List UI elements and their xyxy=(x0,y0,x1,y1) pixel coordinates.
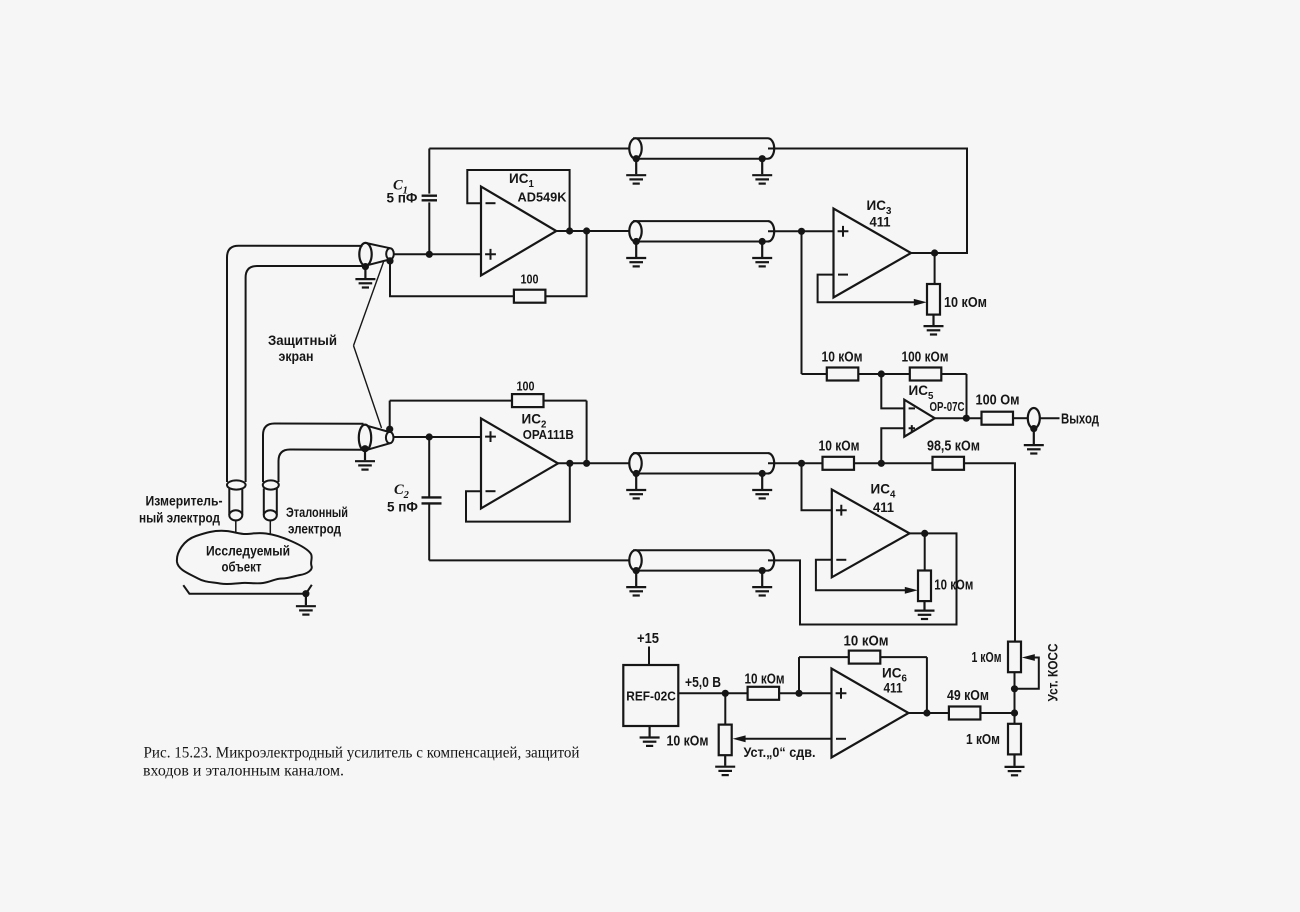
wire reference row from cable C through 10k and 98.5k to CMRR pot xyxy=(768,463,1015,641)
ground 1 kOhm xyxy=(1005,754,1025,775)
electrode 1 (measuring electrode) xyxy=(227,480,246,533)
wire pot bottom through node to R 1k xyxy=(1014,672,1016,723)
node IC3 + input tap xyxy=(798,228,805,235)
arrow offset pot wiper xyxy=(733,735,746,742)
node IC1 output / feedback xyxy=(566,227,573,234)
node IC2 output / guard tap xyxy=(583,460,590,467)
node IC4 output xyxy=(921,530,928,537)
junction shielded cable A (top bootstrap) shield left xyxy=(633,155,640,162)
callout line to plug A guard xyxy=(354,262,384,346)
svg-text:Уст. КОСС: Уст. КОСС xyxy=(1045,644,1061,702)
ground offset pot xyxy=(715,755,735,775)
wire IC6 output row via R 49k xyxy=(909,712,1015,714)
node IC3 output xyxy=(931,249,938,256)
junction output jack shield xyxy=(1030,425,1037,432)
svg-text:Выход: Выход xyxy=(1061,412,1099,428)
junction shielded cable C (IC2 output) shield right xyxy=(759,470,766,477)
potentiometer R gain 10 kOhm (IC4) xyxy=(918,571,931,602)
svg-text:REF-02C: REF-02C xyxy=(626,689,676,704)
junction shielded cable D (lower bootstrap) shield right xyxy=(759,567,766,574)
wire cable 2 shield outer line xyxy=(263,424,364,483)
node IC2 + input / C2 junction xyxy=(426,433,433,440)
svg-text:AD549K: AD549K xyxy=(518,191,567,205)
shielded cable C (IC2 output) xyxy=(629,453,774,473)
ground REF-02C xyxy=(640,726,660,746)
ground shielded cable D (lower bootstrap) right xyxy=(752,572,772,596)
wire IC1 output to cable B xyxy=(556,230,633,232)
junction object ground xyxy=(302,590,309,597)
wire ground plate under object xyxy=(183,585,311,594)
connector output jack xyxy=(1028,408,1040,428)
wire jack to output label xyxy=(1040,417,1060,419)
node IC5 + tap xyxy=(878,460,885,467)
potentiometer R gain 10 kOhm (IC3) xyxy=(927,284,940,315)
node +5V tap xyxy=(722,690,729,697)
junction shielded cable C (IC2 output) shield left xyxy=(633,470,640,477)
ground plug A shield xyxy=(355,268,375,288)
resistor R 98.5 kOhm xyxy=(933,457,965,470)
op-amp U3 (IC3 411) xyxy=(834,209,912,298)
svg-text:10 кОм: 10 кОм xyxy=(934,578,973,594)
potentiometer R offset 10 kOhm xyxy=(719,725,732,756)
wire guard-bus top from C1 to cable shield A xyxy=(429,148,633,150)
electrode 2 (reference electrode) xyxy=(263,480,279,535)
voltage reference REF-02C xyxy=(623,665,678,726)
connector plug A (guarded input, upper) xyxy=(359,243,394,266)
wire tap down to R 10k row xyxy=(801,231,803,374)
svg-text:Уст.„0“ сдв.: Уст.„0“ сдв. xyxy=(744,744,816,760)
wire IC3 - input to pot wiper xyxy=(818,275,915,303)
potentiometer R 1 kOhm (CMRR adjust) xyxy=(1008,642,1021,673)
wire IC5 output xyxy=(935,417,982,419)
wire IC4 - input to pot wiper xyxy=(816,560,906,591)
svg-text:объект: объект xyxy=(222,559,262,575)
svg-text:Исследуемый: Исследуемый xyxy=(206,543,290,559)
junction plug A guard ring xyxy=(386,257,393,264)
wire C2 bootstrap to cable D xyxy=(429,559,633,561)
junction shielded cable B (IC1 output) shield left xyxy=(633,238,640,245)
wire IC5 - input up to summing node xyxy=(881,374,904,408)
svg-text:Защитный: Защитный xyxy=(268,332,337,348)
svg-text:10 кОм: 10 кОм xyxy=(844,634,889,650)
svg-text:100 кОм: 100 кОм xyxy=(902,350,949,366)
wire IC6 feedback row via R 10k to output xyxy=(799,657,927,713)
svg-text:98,5 кОм: 98,5 кОм xyxy=(927,439,980,455)
wire IC5 + input down to reference row xyxy=(881,428,904,463)
node IC6 output xyxy=(923,709,930,716)
op-amp U2 (IC2 OPA111B) xyxy=(481,418,558,508)
wire IC2 output to cable C xyxy=(558,462,633,464)
node IC6 + input / feedback tap xyxy=(795,690,802,697)
resistor R 10 kOhm (reference row) xyxy=(823,457,855,470)
svg-text:10 кОм: 10 кОм xyxy=(745,672,785,688)
wire IC3 output to gain pot xyxy=(934,253,936,284)
ground shielded cable B (IC1 output) left xyxy=(626,243,646,267)
node IC2 output / feedback xyxy=(566,460,573,467)
ground shielded cable B (IC1 output) right xyxy=(752,243,772,267)
ground shielded cable A (top bootstrap) right xyxy=(752,160,772,184)
svg-text:Эталонный: Эталонный xyxy=(286,504,348,520)
wire to output jack xyxy=(1013,417,1028,419)
node IC1 + input / C1 junction xyxy=(426,251,433,258)
junction shielded cable B (IC1 output) shield right xyxy=(759,238,766,245)
node between 10k and 100k xyxy=(878,370,885,377)
wire plug A inner conductor to IC1 + input xyxy=(394,253,481,255)
wire plug B guard up to R 100 (IC2) xyxy=(389,401,391,430)
shielded cable D (lower bootstrap) xyxy=(629,550,774,570)
junction plug B guard ring xyxy=(386,426,393,433)
wire guard drive via R 100 to plug A shield xyxy=(390,231,587,296)
resistor R feedback 10 kOhm (IC6) xyxy=(849,651,881,664)
wire cable 2 shield inner line xyxy=(279,450,364,483)
wire IC2 feedback loop (output to - input) xyxy=(466,463,570,521)
svg-text:экран: экран xyxy=(279,348,314,364)
ground shielded cable C (IC2 output) left xyxy=(626,475,646,499)
wire offset pot wiper to IC6 - input xyxy=(745,738,832,740)
svg-text:411: 411 xyxy=(884,680,903,696)
svg-text:5 пФ: 5 пФ xyxy=(387,191,418,206)
svg-text:+5,0 В: +5,0 В xyxy=(685,675,721,691)
svg-text:411: 411 xyxy=(873,499,894,515)
resistor R feedback 100 kOhm (IC5) xyxy=(910,368,942,381)
ground shielded cable D (lower bootstrap) left xyxy=(626,572,646,596)
shielded cable A (top bootstrap) xyxy=(629,138,774,158)
capacitor C1 xyxy=(422,149,437,255)
capacitor C2 xyxy=(422,437,442,560)
connector plug B (guarded input, lower) xyxy=(359,425,394,451)
resistor R guard 100 (IC1) xyxy=(514,290,546,303)
arrow IC3 pot wiper xyxy=(914,299,927,306)
node IC4 + input tap xyxy=(798,460,805,467)
svg-text:входов и эталонным каналом.: входов и эталонным каналом. xyxy=(143,762,344,780)
wire cable 1 shield outer line xyxy=(227,246,363,482)
op-amp U4 (IC4 411) xyxy=(832,490,910,578)
wire +5V reference row to IC6 + input xyxy=(678,692,831,694)
junction plug A shield xyxy=(362,263,369,270)
wire CMRR pot wiper down to node xyxy=(1015,658,1039,689)
wire IC6 feedback tap up xyxy=(798,657,800,693)
node compensation injection xyxy=(1011,709,1018,716)
wire guard drive row via R 100 to IC2 output xyxy=(390,401,587,464)
wire +15 to REF-02C xyxy=(648,647,650,666)
junction plug B shield xyxy=(361,445,368,452)
object under test (blob) xyxy=(177,531,312,584)
junction shielded cable D (lower bootstrap) shield left xyxy=(633,567,640,574)
wire IC1 feedback loop (output to - input) xyxy=(467,170,569,231)
svg-text:100: 100 xyxy=(517,380,535,394)
node IC5 output / feedback xyxy=(963,415,970,422)
ground IC4 pot xyxy=(915,601,935,619)
resistor R out 100 Ohm xyxy=(982,412,1014,425)
wire plug B inner conductor to IC2 + input xyxy=(394,436,482,438)
wire IC3 output xyxy=(911,252,942,254)
ground output jack xyxy=(1024,430,1044,454)
node CMRR wiper junction xyxy=(1011,685,1018,692)
svg-text:электрод: электрод xyxy=(288,521,341,537)
op-amp U1 (IC1 AD549K) xyxy=(481,187,556,276)
svg-text:Измеритель-: Измеритель- xyxy=(146,493,223,509)
ground plug B shield xyxy=(355,450,375,470)
wire cable B to IC3 + input xyxy=(768,230,834,232)
wire tap down to IC4 + input xyxy=(802,463,832,510)
wire summing row R10k R100k to IC5 xyxy=(802,374,967,418)
resistor R guard 100 (IC2) xyxy=(512,394,544,407)
callout line to plug B guard xyxy=(354,346,382,428)
junction shielded cable A (top bootstrap) shield right xyxy=(759,155,766,162)
wire IC4 bootstrap loop to cable D xyxy=(768,533,957,624)
svg-text:ный электрод: ный электрод xyxy=(139,510,220,526)
svg-text:100 Ом: 100 Ом xyxy=(976,393,1020,409)
svg-text:1 кОм: 1 кОм xyxy=(972,650,1002,666)
wire +5V down to offset pot xyxy=(724,693,726,724)
svg-text:49 кОм: 49 кОм xyxy=(947,688,989,704)
wire IC4 output to gain pot xyxy=(924,533,926,570)
svg-text:5 пФ: 5 пФ xyxy=(387,500,418,515)
node IC1 output / guard tap xyxy=(583,227,590,234)
svg-text:10 кОм: 10 кОм xyxy=(944,295,987,311)
shielded cable B (IC1 output) xyxy=(629,221,774,241)
arrow CMRR pot wiper xyxy=(1022,654,1035,661)
svg-text:10 кОм: 10 кОм xyxy=(667,734,709,750)
wire cable 1 shield inner line xyxy=(246,266,363,482)
svg-text:1 кОм: 1 кОм xyxy=(966,732,1000,748)
svg-text:100: 100 xyxy=(521,273,539,287)
svg-text:10 кОм: 10 кОм xyxy=(819,439,860,455)
svg-text:+15: +15 xyxy=(637,631,659,647)
svg-text:ОР-07С: ОР-07С xyxy=(930,400,965,414)
op-amp U6 (IC6 411) xyxy=(832,669,909,758)
op-amp U5 (IC5 OP-07C) xyxy=(904,400,935,437)
svg-text:ОРА111В: ОРА111В xyxy=(523,428,574,442)
arrow IC4 pot wiper xyxy=(905,587,918,594)
ground shielded cable C (IC2 output) right xyxy=(752,475,772,499)
wire top bootstrap from cable A to IC3 output xyxy=(768,149,967,254)
ground IC3 pot xyxy=(924,315,944,335)
resistor R 1 kOhm (to ground) xyxy=(1008,724,1021,755)
svg-text:411: 411 xyxy=(870,214,891,230)
svg-text:Рис. 15.23. Микроэлектродный у: Рис. 15.23. Микроэлектродный усилитель с… xyxy=(144,744,580,762)
svg-text:10 кОм: 10 кОм xyxy=(822,350,863,366)
ground shielded cable A (top bootstrap) left xyxy=(626,160,646,184)
resistor R 10 kOhm (to IC5 - ) xyxy=(827,368,859,381)
resistor R 10 kOhm (IC6 + input) xyxy=(748,687,780,700)
resistor R 49 kOhm xyxy=(949,707,981,720)
ground object xyxy=(296,595,316,615)
